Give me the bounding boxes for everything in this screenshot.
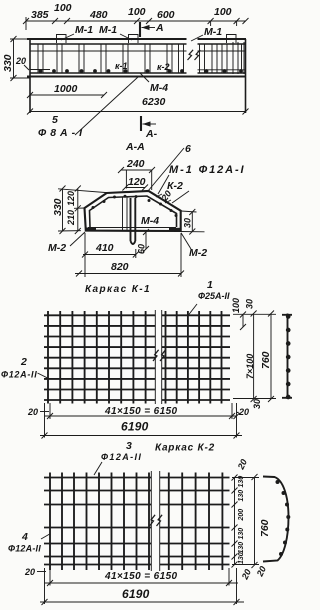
dim 6230 ticks: [27, 109, 249, 115]
mesh2 horizontal bars right: [160, 478, 230, 565]
svg-text:20: 20: [24, 567, 35, 577]
mesh2 break line left: [150, 471, 152, 571]
svg-text:120: 120: [128, 176, 146, 188]
stirrup pair 7: [167, 44, 172, 73]
section arrow A top: [142, 27, 156, 29]
svg-text:М-1 Ф12А-I: М-1 Ф12А-I: [169, 164, 246, 176]
svg-text:4: 4: [21, 531, 28, 543]
left chain 330 ticks: [60, 186, 66, 235]
dim line 760 mesh2: [254, 477, 256, 565]
dim 120 ticks: [122, 185, 148, 191]
svg-text:480: 480: [89, 9, 108, 21]
left chain 330 line: [62, 189, 64, 232]
leader item 6: [148, 148, 184, 191]
leader item 5: [75, 77, 138, 135]
section cut line A top: [139, 22, 141, 37]
svg-text:385: 385: [31, 9, 49, 21]
svg-text:100: 100: [231, 298, 241, 313]
svg-text:760: 760: [259, 519, 271, 537]
dim 120 line: [125, 187, 145, 189]
svg-text:к-1: к-1: [115, 61, 128, 71]
svg-text:6: 6: [185, 143, 191, 155]
leader M-2 right: [181, 233, 191, 249]
mesh1 horizontal bars left: [44, 315, 155, 400]
chain line 7x100: [253, 314, 255, 400]
svg-text:6230: 6230: [142, 96, 166, 108]
beam bottom edge: [27, 75, 246, 77]
svg-text:100: 100: [214, 6, 232, 18]
break mark left: [188, 50, 194, 60]
svg-text:210: 210: [66, 210, 76, 226]
svg-text:100: 100: [128, 6, 146, 18]
svg-text:30: 30: [183, 218, 193, 228]
section arrow A bottom: [143, 123, 157, 125]
mesh1 break marks: [153, 350, 166, 361]
svg-text:20: 20: [27, 407, 38, 417]
beam inner line right: [197, 69, 245, 71]
top dim ticks: [23, 18, 249, 26]
dim 820 line: [75, 273, 181, 275]
ext bottom right: [181, 231, 205, 233]
svg-text:60: 60: [137, 244, 147, 254]
mesh1 vertical bars left: [48, 311, 146, 404]
ext left 6190 mesh2: [44, 568, 46, 604]
lifting hook M-1 left: [57, 35, 67, 44]
mesh1 break line left: [154, 310, 156, 404]
bottom rebar dots: [39, 69, 243, 73]
svg-text:41×150 = 6150: 41×150 = 6150: [104, 406, 178, 417]
leader M-1 second: [120, 34, 132, 40]
ext bottom to chain: [58, 230, 81, 232]
svg-text:Ф25А-II: Ф25А-II: [198, 291, 230, 301]
svg-text:5: 5: [52, 114, 58, 126]
svg-text:М-1: М-1: [204, 26, 222, 38]
ext top-left corner to chain: [58, 189, 107, 193]
beam top rebar line: [30, 43, 246, 45]
mesh2 vertical bars left: [50, 473, 149, 571]
bearing plate M-2 right: [169, 228, 180, 231]
svg-text:Каркас К-1: Каркас К-1: [85, 284, 151, 295]
slope dim ticks: [156, 194, 171, 203]
svg-text:М-1: М-1: [99, 24, 117, 36]
ext left 6190: [44, 403, 46, 438]
dim 1000 line: [30, 94, 104, 96]
svg-text:240: 240: [126, 158, 145, 170]
svg-text:1000: 1000: [54, 83, 78, 95]
mesh2 side view dots: [276, 480, 291, 556]
mesh1 side view dots: [286, 314, 291, 399]
svg-text:А-: А-: [145, 128, 158, 140]
svg-text:760: 760: [260, 351, 272, 369]
section bottom inner line: [88, 227, 176, 229]
lifting hook M-1 mid: [129, 35, 139, 44]
svg-text:Каркас К-2: Каркас К-2: [155, 443, 215, 454]
right edge dim 30: [191, 212, 193, 232]
leader K-2 section: [172, 191, 189, 203]
svg-text:Ф12А-II: Ф12А-II: [8, 544, 41, 554]
svg-text:130: 130: [238, 542, 245, 554]
section cut line A bottom: [140, 116, 142, 131]
beam support line left: [30, 69, 50, 71]
svg-text:2: 2: [20, 356, 27, 368]
svg-text:7×100: 7×100: [245, 354, 255, 379]
beam upper inner line: [30, 50, 246, 52]
svg-text:3: 3: [126, 440, 132, 452]
left dim 330 ext bottom: [10, 77, 30, 79]
ext bottom right mesh2: [232, 564, 259, 566]
mesh1 side view bar: [282, 314, 292, 400]
svg-text:410: 410: [95, 242, 114, 254]
dim 410 line: [83, 254, 136, 256]
ext right 6150: [231, 403, 233, 419]
leader M-1 right: [191, 35, 203, 41]
stirrup pair 10 (end): [242, 42, 245, 74]
svg-text:330: 330: [52, 198, 64, 216]
leader M-1 first: [61, 34, 74, 40]
ext right 6190: [236, 403, 238, 438]
ext right 6190 mesh2: [236, 568, 238, 604]
svg-text:30: 30: [245, 299, 255, 309]
leader item 4: [41, 534, 50, 539]
beam top edge: [27, 38, 246, 40]
beam bottom inner line: [30, 72, 246, 74]
dim line 760: [270, 314, 272, 400]
ext left 6150 mesh2: [49, 570, 51, 586]
ext right corner: [181, 211, 197, 212]
svg-text:20: 20: [15, 56, 26, 66]
ext 820 right: [180, 233, 182, 277]
svg-text:-20: -20: [236, 407, 249, 417]
beam break gap: [187, 38, 198, 76]
top dim extension left: [25, 17, 27, 30]
ext 410 left: [84, 233, 86, 277]
svg-text:А-А: А-А: [125, 141, 145, 153]
svg-text:Ф12А-II: Ф12А-II: [1, 370, 37, 380]
svg-text:М-2: М-2: [48, 242, 66, 254]
svg-text:К-2: К-2: [167, 180, 183, 192]
svg-text:6190: 6190: [122, 587, 150, 601]
top dimension line: [26, 20, 246, 22]
dim 1000 ticks: [27, 92, 107, 98]
ext top right mesh2: [232, 477, 259, 479]
dim line 41x150=6150: [45, 415, 237, 417]
mesh2 break marks: [150, 515, 163, 526]
svg-text:120: 120: [66, 191, 76, 206]
ext mid ledge to chain: [74, 207, 85, 209]
dim 240 ext right: [151, 170, 153, 190]
rebar dots on section: [92, 195, 178, 217]
chain line mesh2: [234, 477, 236, 565]
section inner reinforcement line: [90, 196, 177, 227]
svg-text:130: 130: [238, 528, 245, 540]
svg-text:6190: 6190: [121, 420, 149, 434]
dim line 6190: [40, 435, 242, 437]
dim line 41x150=6150 mesh2: [45, 582, 239, 584]
svg-text:130: 130: [238, 552, 245, 564]
svg-text:600: 600: [157, 9, 175, 21]
svg-text:330: 330: [2, 54, 14, 72]
stirrup pair 9b: [233, 42, 238, 74]
bearing plate M-2 left: [85, 228, 96, 231]
svg-text:200: 200: [238, 509, 245, 522]
svg-text:1: 1: [207, 279, 213, 291]
ext left 6150: [49, 403, 51, 419]
beam left edge with extension down: [29, 39, 31, 113]
leader M-4: [140, 73, 149, 82]
stirrup pair 7b: [179, 44, 184, 73]
svg-text:М-2: М-2: [189, 247, 207, 259]
dim line 6190 mesh2: [40, 601, 244, 603]
dim 240 line: [121, 169, 152, 171]
svg-text:820: 820: [111, 261, 129, 273]
leader item 2: [38, 373, 49, 379]
svg-text:130: 130: [238, 490, 245, 502]
break mark right: [195, 50, 201, 60]
mesh2 horizontal bars left: [44, 478, 151, 565]
stirrup pair 6: [145, 44, 150, 73]
svg-text:М-1: М-1: [75, 24, 93, 36]
mesh2 vertical bars right: [169, 473, 223, 571]
stirrup pair 5: [123, 44, 128, 73]
M-4 hanger legs with U bottom: [131, 198, 136, 244]
leader item 3: [94, 462, 102, 475]
lifting hook M-1 right: [227, 35, 237, 44]
mesh1 break line right: [161, 310, 163, 404]
svg-text:Ф12А-II: Ф12А-II: [101, 452, 142, 462]
svg-text:к-2: к-2: [157, 62, 170, 72]
stirrup pair 8b: [212, 44, 217, 73]
stirrup pair 9: [222, 44, 227, 73]
leader item 1: [189, 304, 198, 315]
svg-text:А: А: [155, 22, 164, 34]
inner cage vertical bars: [123, 197, 128, 231]
leader M-1 F12A-I: [158, 175, 169, 194]
dim 6230 line: [30, 111, 246, 113]
ext rib center: [135, 249, 137, 258]
ext line bottom right: [233, 398, 276, 400]
svg-text:41×150 = 6150: 41×150 = 6150: [104, 571, 178, 582]
left chain ticks: [75, 186, 81, 235]
hanger drop dim 60 line: [145, 232, 147, 249]
leader M-2 left: [70, 232, 85, 246]
beam right edge with extension down: [245, 39, 247, 113]
dim 240 ext left: [125, 170, 127, 189]
mesh1 vertical bars right: [166, 311, 222, 404]
stirrup pair 2: [57, 44, 62, 73]
left dim 330 ticks: [11, 36, 17, 81]
mesh1 horizontal bars right: [162, 315, 230, 400]
left chain 120/210 line: [77, 189, 79, 232]
dim 240 ticks: [118, 167, 155, 173]
left dim 330 line: [13, 39, 15, 78]
ext right 6150 mesh2: [228, 568, 230, 586]
ext line top right: [233, 313, 276, 315]
section outer outline: [85, 191, 181, 231]
svg-text:100: 100: [54, 2, 72, 14]
dim 100 small line right: [242, 315, 244, 328]
stirrup pair 4: [101, 44, 106, 73]
left dim 330 ext top: [10, 38, 30, 40]
svg-text:30: 30: [252, 399, 262, 409]
svg-text:Ф8А-I: Ф8А-I: [38, 127, 86, 139]
mesh2 break line right: [159, 471, 161, 571]
svg-text:М-4: М-4: [141, 215, 159, 227]
svg-text:М-4: М-4: [150, 82, 168, 94]
stirrup pair 1: [38, 44, 43, 73]
mesh2 side view curved bar: [263, 477, 289, 562]
stirrup pair 8: [200, 44, 205, 73]
stirrup pair 3: [79, 44, 84, 73]
